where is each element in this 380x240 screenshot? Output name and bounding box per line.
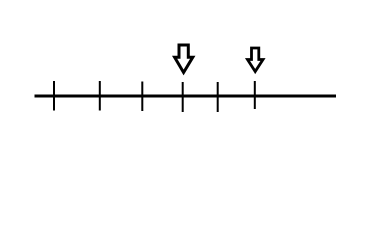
arrow 1 (hollow down arrow above tick 4) — [175, 45, 193, 73]
tick 3 — [141, 82, 143, 112]
arrow 2 (hollow down arrow above tick 6) — [248, 48, 264, 72]
tick 2 — [99, 81, 101, 111]
tick 5 — [217, 82, 219, 112]
tick 6 — [254, 81, 256, 109]
tick 4 — [182, 82, 184, 112]
tick 1 — [53, 81, 55, 111]
number line (horizontal axis) — [35, 95, 337, 98]
